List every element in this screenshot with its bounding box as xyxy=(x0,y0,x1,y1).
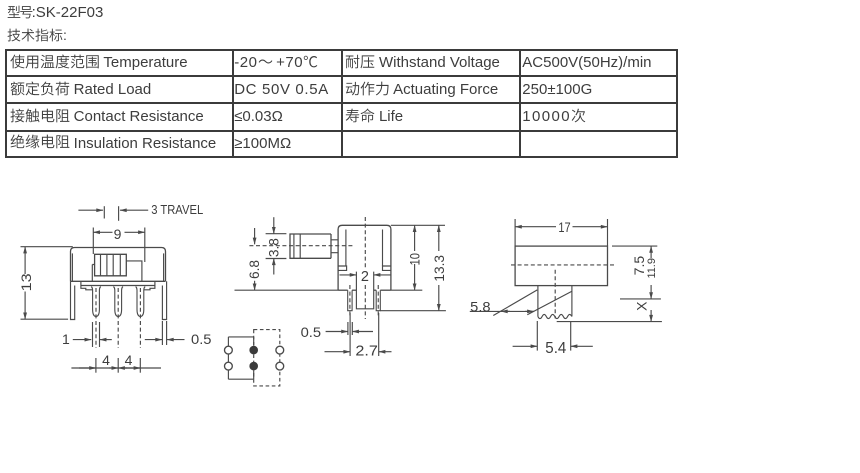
dimension: 0.5 (leg thickness) xyxy=(145,339,162,341)
svg-text:2.7: 2.7 xyxy=(355,344,378,360)
dimension: 5.4 (housing width) xyxy=(536,321,538,351)
dimension: 10 (body height) xyxy=(414,225,416,251)
left view: pin centerlines xyxy=(95,288,97,348)
top view: body outline xyxy=(515,246,607,286)
side view: knob neck xyxy=(331,240,338,253)
svg-text:0.5: 0.5 xyxy=(191,331,212,347)
svg-text:4: 4 xyxy=(102,352,110,368)
side view: body bottom reference line xyxy=(235,289,339,291)
svg-text:3.8: 3.8 xyxy=(265,238,281,257)
svg-text:3 TRAVEL: 3 TRAVEL xyxy=(151,202,203,217)
side view: center locating post xyxy=(356,272,373,309)
PCB pad layout: dashed outline xyxy=(254,330,280,386)
side view: actuator knob cylinder xyxy=(290,234,331,258)
svg-text:9: 9 xyxy=(114,226,122,242)
dimension: 13.3 (overall height) xyxy=(438,225,440,251)
svg-text:4: 4 xyxy=(125,352,133,368)
svg-text:10: 10 xyxy=(408,253,423,266)
dimension: 13 (overall height) xyxy=(21,246,73,248)
side view: switch body outline xyxy=(338,225,391,290)
left view: base strip and side steps xyxy=(81,285,155,287)
side view: metal frame edges and tabs xyxy=(345,230,347,267)
dimension: 4 | 4 (pin pitch) xyxy=(71,367,161,369)
dimension: 17 (body length) xyxy=(514,219,516,246)
svg-text:11.9: 11.9 xyxy=(646,258,658,279)
svg-text:13: 13 xyxy=(18,273,34,291)
dimension: 2.7 (pin spacing) xyxy=(349,313,351,356)
top view: actuator housing with break line xyxy=(537,286,539,317)
svg-text:X: X xyxy=(634,301,650,311)
dimension: 3 TRAVEL xyxy=(78,209,103,211)
dimension: 3.8 (knob diameter) xyxy=(266,233,287,235)
dimension: 9 (knob slot width) xyxy=(92,228,94,255)
svg-text:13.3: 13.3 xyxy=(432,255,447,282)
svg-text:6.8: 6.8 xyxy=(246,260,262,279)
dimension: 2 (post width) xyxy=(340,274,357,276)
svg-text:0.5: 0.5 xyxy=(301,324,322,340)
extension ticks for pin width dim xyxy=(92,322,94,347)
left view: side mounting legs xyxy=(71,281,75,319)
dimensions: 7.5 / 11.9 / X xyxy=(612,245,657,247)
side view: terminal pins xyxy=(348,290,352,311)
left view: terminal pins 1-3 xyxy=(91,287,101,317)
svg-text:1: 1 xyxy=(62,331,70,347)
svg-text:2: 2 xyxy=(361,269,369,285)
left view: slider knob with ribs xyxy=(95,254,127,275)
svg-text:17: 17 xyxy=(558,219,570,235)
side view: centerlines xyxy=(349,285,351,318)
svg-text:5.4: 5.4 xyxy=(545,340,566,357)
left view: knob slot recess xyxy=(126,261,142,281)
extension ticks for pin pitch dim xyxy=(95,358,97,373)
left view: switch body outline xyxy=(71,248,166,282)
dimension: 6.8 (knob axis height) xyxy=(254,228,256,244)
side view: body bottom edges xyxy=(338,289,348,291)
svg-text:7.5: 7.5 xyxy=(631,256,647,276)
side view: extension lines xyxy=(391,224,445,226)
svg-text:5.8: 5.8 xyxy=(470,298,491,314)
dimension: 5.8 (diagonal leader) xyxy=(493,290,537,316)
PCB pad layout: pads xyxy=(225,346,233,354)
